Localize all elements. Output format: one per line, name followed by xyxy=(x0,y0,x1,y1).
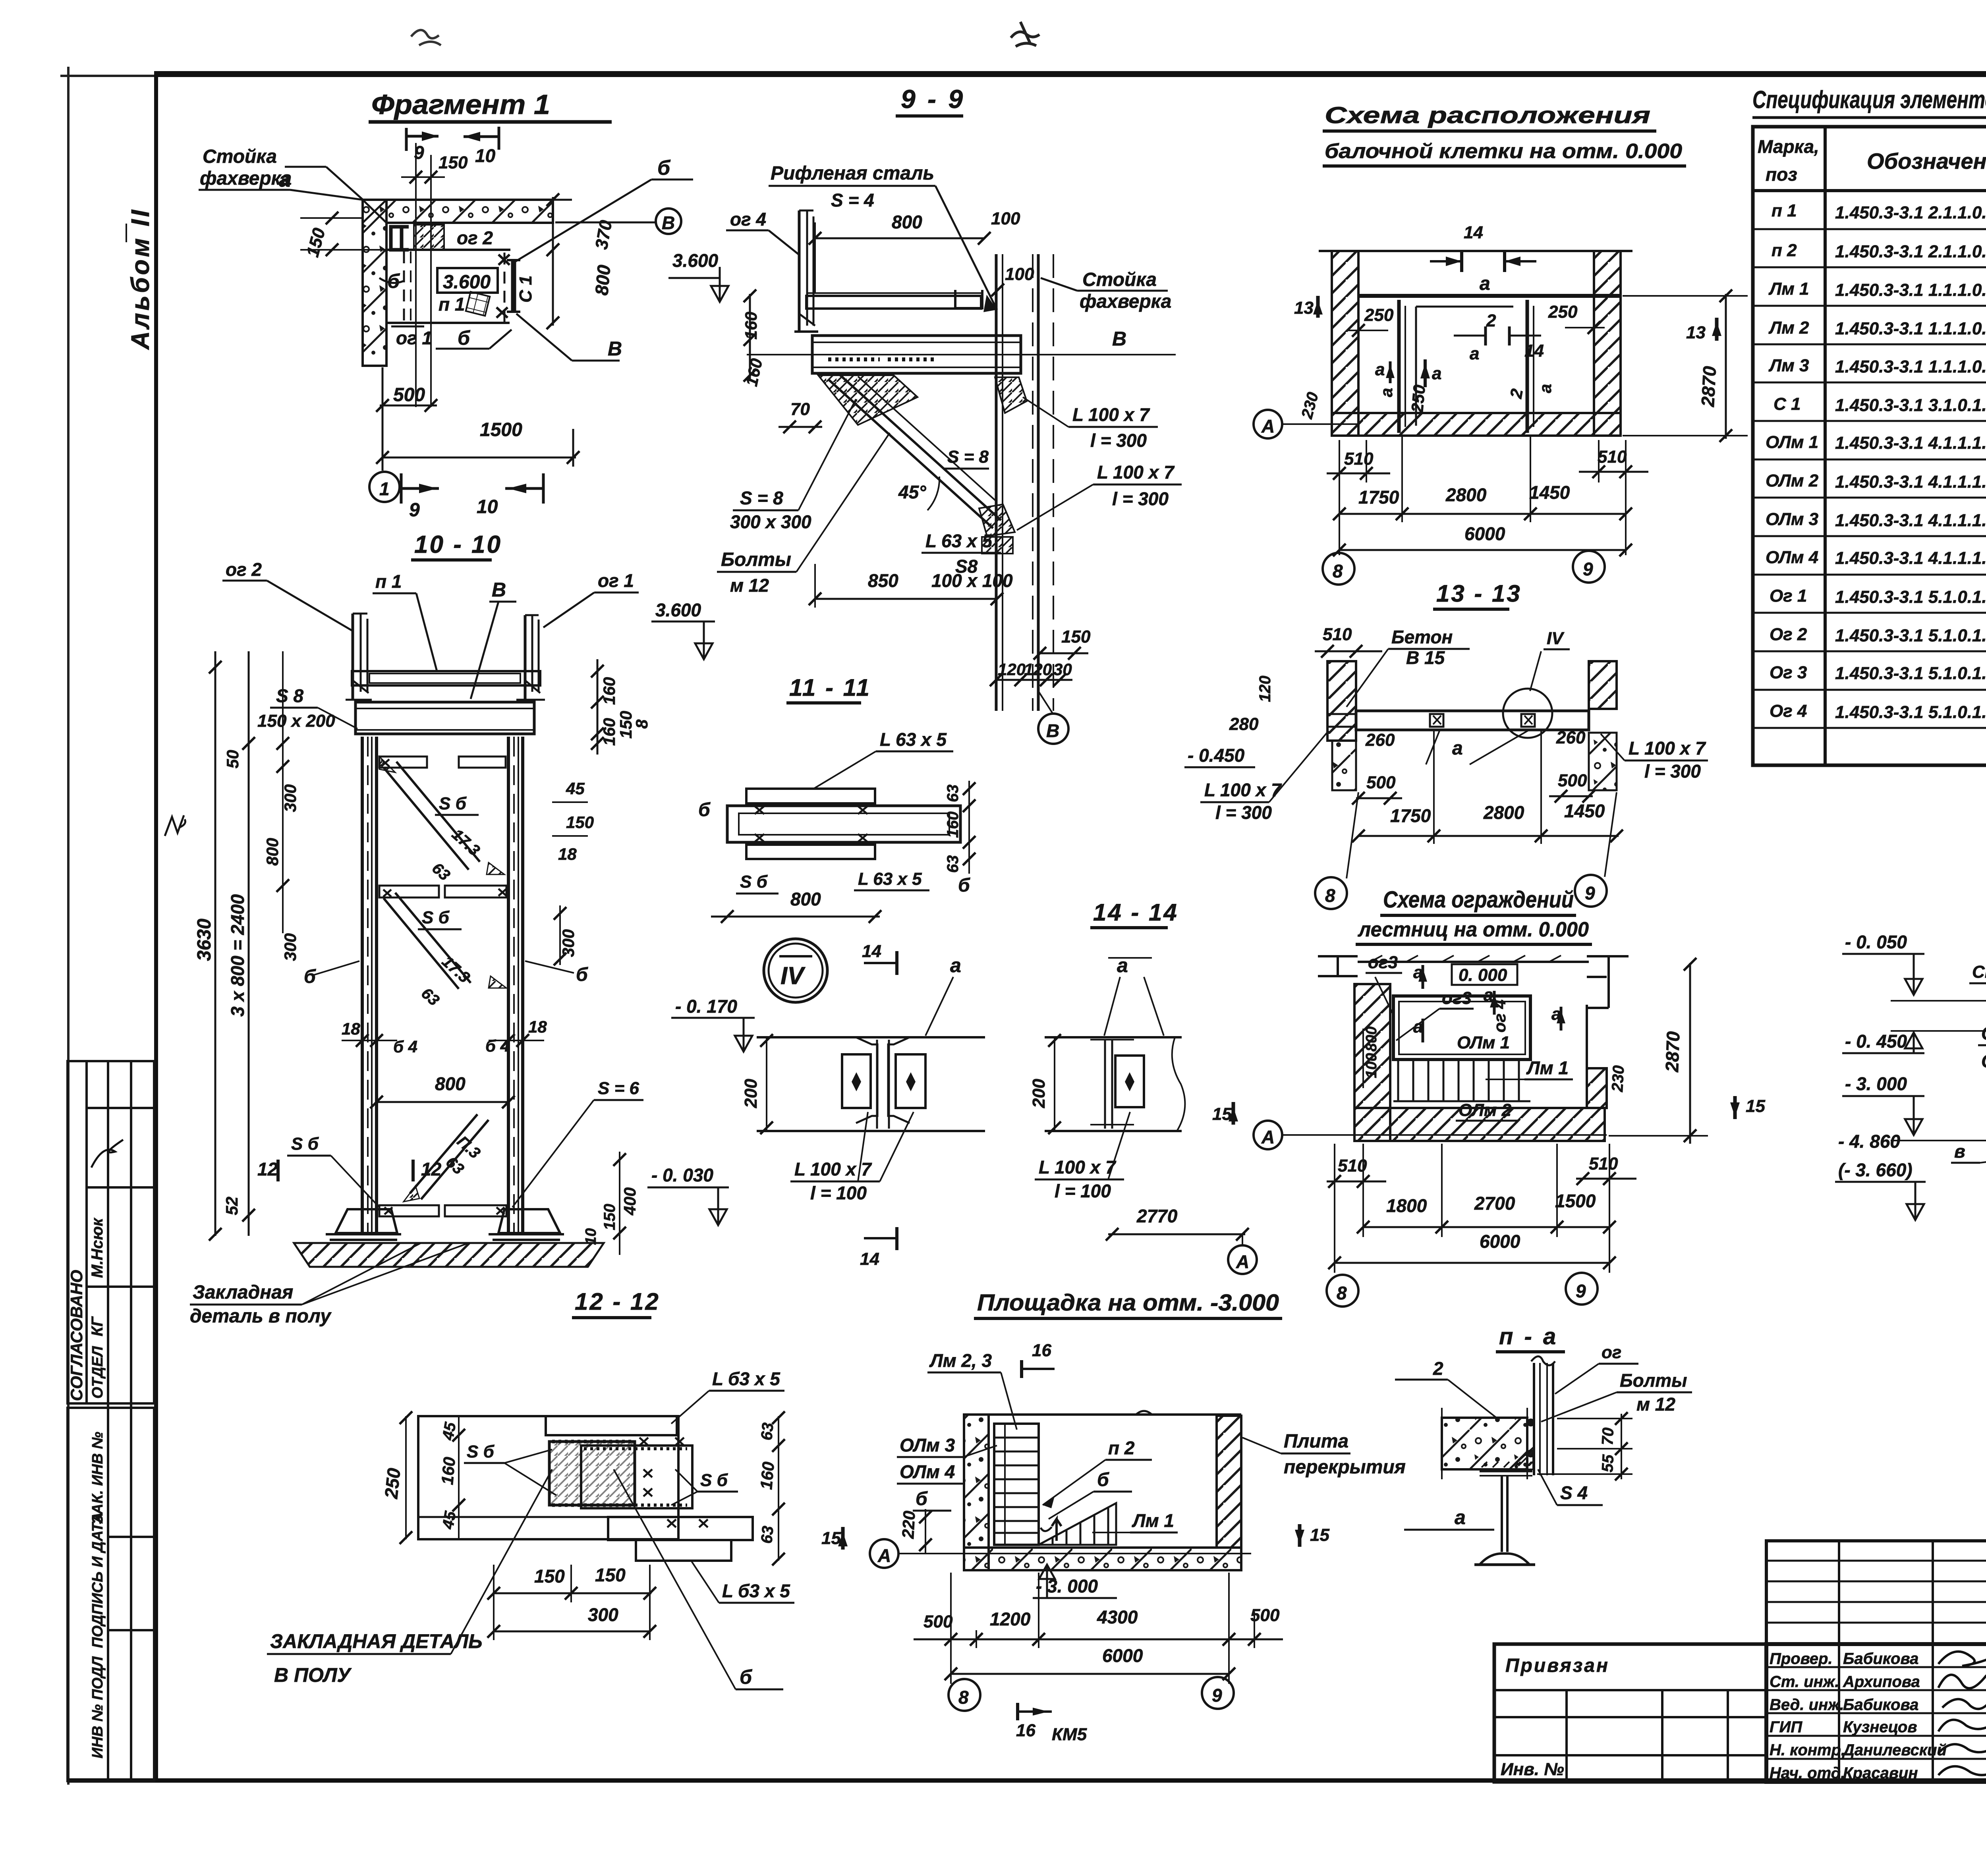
svg-text:м 12: м 12 xyxy=(730,575,769,596)
svg-text:150: 150 xyxy=(534,1566,565,1586)
svg-text:1500: 1500 xyxy=(480,419,522,440)
svg-text:Лм 1: Лм 1 xyxy=(1526,1058,1569,1078)
svg-text:6000: 6000 xyxy=(1102,1645,1143,1666)
stair up ladder xyxy=(994,1424,1039,1545)
svg-text:фахверка: фахверка xyxy=(1080,291,1171,312)
svg-text:3.600: 3.600 xyxy=(655,600,701,620)
svg-text:б: б xyxy=(740,1666,753,1688)
svg-text:Фрагмент 1: Фрагмент 1 xyxy=(371,89,550,120)
svg-text:3630: 3630 xyxy=(194,919,215,961)
svg-text:500: 500 xyxy=(393,384,425,405)
svg-text:М.Нсюк: М.Нсюк xyxy=(89,1218,106,1278)
svg-text:L б3 x 5: L б3 x 5 xyxy=(722,1581,790,1601)
svg-text:800: 800 xyxy=(591,264,614,296)
svg-text:200: 200 xyxy=(1029,1079,1049,1108)
svg-text:510: 510 xyxy=(1598,447,1627,467)
svg-text:А: А xyxy=(877,1545,891,1566)
upper small table xyxy=(1766,1541,1986,1644)
svg-text:250: 250 xyxy=(1364,305,1394,325)
svg-text:13: 13 xyxy=(1294,298,1314,318)
svg-text:а: а xyxy=(1455,1506,1466,1529)
ground hatch xyxy=(294,1243,604,1267)
svg-text:9: 9 xyxy=(409,500,420,521)
railing post xyxy=(1531,1357,1555,1476)
svg-text:1750: 1750 xyxy=(1358,487,1399,508)
svg-text:Ог 2: Ог 2 xyxy=(1770,625,1807,644)
svg-text:1800: 1800 xyxy=(1386,1195,1427,1216)
svg-text:200: 200 xyxy=(741,1079,761,1108)
svg-text:С 1: С 1 xyxy=(516,276,535,303)
svg-text:13 - 13: 13 - 13 xyxy=(1436,580,1522,607)
svg-text:1.450.3-3.1 1.1.1.0.0 - 07: 1.450.3-3.1 1.1.1.0.0 - 07 xyxy=(1835,319,1986,338)
main beam xyxy=(812,336,1021,373)
svg-text:1.450.3-3.1 5.1.0.1.0: 1.450.3-3.1 5.1.0.1.0 xyxy=(1835,626,1986,645)
svg-text:- 0. 170: - 0. 170 xyxy=(675,996,737,1017)
hatch patch under slab xyxy=(414,225,444,250)
left guard post xyxy=(346,614,372,700)
svg-text:160: 160 xyxy=(757,1461,778,1490)
svg-text:перекрытия: перекрытия xyxy=(1284,1457,1406,1478)
svg-text:ИНВ № ПОДЛ: ИНВ № ПОДЛ xyxy=(89,1656,106,1758)
signatures squiggles xyxy=(1938,1652,1986,1775)
dims right xyxy=(968,781,970,874)
spec table grid xyxy=(1753,127,1986,765)
svg-text:п 2: п 2 xyxy=(1772,241,1797,260)
svg-text:9: 9 xyxy=(1585,883,1595,903)
svg-text:б: б xyxy=(657,156,671,179)
svg-text:850: 850 xyxy=(868,570,898,591)
svg-text:13: 13 xyxy=(1686,323,1706,342)
svg-text:п 1: п 1 xyxy=(1772,201,1797,220)
outer walls xyxy=(1319,251,1632,436)
svg-text:l = 100: l = 100 xyxy=(810,1183,867,1203)
svg-text:б: б xyxy=(698,799,711,820)
svg-text:ОЛм 4: ОЛм 4 xyxy=(1766,548,1818,567)
svg-text:l = 100: l = 100 xyxy=(1055,1181,1111,1201)
svg-text:ог 1: ог 1 xyxy=(598,570,634,591)
axis A xyxy=(1283,1134,1607,1136)
svg-text:Привязан: Привязан xyxy=(1505,1655,1609,1676)
svg-text:8: 8 xyxy=(1337,1283,1347,1303)
svg-text:150: 150 xyxy=(1061,627,1091,647)
svg-text:1450: 1450 xyxy=(1564,801,1605,821)
left stamp column xyxy=(68,1061,154,1781)
svg-text:ОЛм 2: ОЛм 2 xyxy=(1459,1100,1512,1120)
svg-text:0. 000: 0. 000 xyxy=(1459,965,1507,985)
gusset hatches xyxy=(818,375,918,425)
svg-text:В: В xyxy=(608,338,622,360)
braces and connection plates xyxy=(379,757,506,1216)
svg-text:б: б xyxy=(958,875,970,896)
svg-text:300: 300 xyxy=(281,784,299,812)
svg-text:1450: 1450 xyxy=(1529,482,1570,503)
weld ticks on top flange xyxy=(1482,1462,1532,1467)
platform deck xyxy=(806,296,981,309)
svg-text:Стойка: Стойка xyxy=(1082,269,1157,290)
railing rectangle xyxy=(1393,996,1530,1060)
svg-text:400: 400 xyxy=(620,1187,639,1216)
right dim chain 370 800 xyxy=(552,197,554,326)
svg-text:500: 500 xyxy=(1558,771,1587,790)
svg-text:220: 220 xyxy=(898,1510,919,1539)
svg-text:12: 12 xyxy=(257,1159,278,1179)
inner frame xyxy=(1414,305,1513,306)
svg-text:ГИП: ГИП xyxy=(1770,1718,1802,1736)
right dim 2870 xyxy=(1725,294,1727,439)
svg-text:15: 15 xyxy=(821,1529,841,1548)
svg-text:2870: 2870 xyxy=(1661,1031,1684,1073)
svg-text:100: 100 xyxy=(1005,264,1034,284)
svg-text:S = 8: S = 8 xyxy=(740,488,783,508)
svg-text:деталь в полу: деталь в полу xyxy=(190,1306,332,1327)
frame: bottom border xyxy=(68,1778,1986,1783)
svg-text:9: 9 xyxy=(1576,1281,1586,1301)
svg-text:50: 50 xyxy=(223,750,242,768)
svg-text:а: а xyxy=(1470,344,1479,363)
svg-text:9: 9 xyxy=(1583,559,1593,579)
svg-text:L 100 x 7: L 100 x 7 xyxy=(1097,462,1175,483)
base bracket at column xyxy=(982,537,1013,554)
14 mark bottom xyxy=(864,1237,897,1239)
svg-text:Архипова: Архипова xyxy=(1843,1673,1920,1691)
svg-text:120: 120 xyxy=(1024,660,1052,679)
svg-text:L 100 x 7: L 100 x 7 xyxy=(1072,404,1150,425)
svg-text:160: 160 xyxy=(438,1456,459,1486)
svg-text:Обозначение: Обозначение xyxy=(1867,149,1986,174)
svg-text:14: 14 xyxy=(1524,341,1544,361)
main body xyxy=(418,1416,753,1561)
svg-text:ОЛм 1: ОЛм 1 xyxy=(1766,432,1818,452)
svg-text:L б3 x 5: L б3 x 5 xyxy=(712,1368,780,1389)
svg-text:Н. контр.: Н. контр. xyxy=(1770,1741,1845,1759)
main title block xyxy=(1766,1644,1986,1782)
svg-text:150: 150 xyxy=(601,1204,618,1230)
weld hatch marks xyxy=(552,1442,632,1505)
svg-text:9 - 9: 9 - 9 xyxy=(901,84,965,114)
svg-text:Закладная: Закладная xyxy=(193,1282,293,1303)
x marks xyxy=(496,255,510,318)
axis circle 1 xyxy=(369,472,400,502)
walls xyxy=(964,1415,989,1570)
svg-text:Бетон: Бетон xyxy=(1391,627,1453,647)
right dim chain xyxy=(597,659,599,755)
svg-text:8: 8 xyxy=(1325,885,1335,906)
svg-text:1.450.3-3.1 5.1.0.1.0 - 08: 1.450.3-3.1 5.1.0.1.0 - 08 xyxy=(1835,664,1986,683)
svg-text:11 - 11: 11 - 11 xyxy=(789,674,871,701)
svg-text:п - а: п - а xyxy=(1499,1324,1558,1349)
checker plate mark xyxy=(466,292,490,316)
svg-text:9: 9 xyxy=(1212,1685,1222,1706)
platform deck band xyxy=(352,671,540,685)
svg-text:а: а xyxy=(1536,384,1555,393)
svg-text:l = 300: l = 300 xyxy=(1112,488,1169,509)
svg-text:1.450.3-3.1 2.1.1.0.0 - 07: 1.450.3-3.1 2.1.1.0.0 - 07 xyxy=(1835,203,1986,222)
svg-text:1.450.3-3.1 4.1.1.1.0 - 09: 1.450.3-3.1 4.1.1.1.0 - 09 xyxy=(1835,472,1986,492)
svg-text:150 x 200: 150 x 200 xyxy=(257,711,335,731)
svg-text:1: 1 xyxy=(379,479,390,499)
svg-text:14: 14 xyxy=(1464,223,1483,242)
svg-text:L 100 x 7: L 100 x 7 xyxy=(1039,1157,1117,1177)
dims right xyxy=(1621,1414,1622,1479)
svg-text:4300: 4300 xyxy=(1097,1607,1138,1627)
svg-text:ог: ог xyxy=(1602,1343,1621,1362)
svg-text:Лм 2: Лм 2 xyxy=(1768,318,1809,338)
circled В axis xyxy=(656,208,681,234)
column right xyxy=(996,254,1053,711)
svg-text:ОЛм 1: ОЛм 1 xyxy=(1457,1033,1510,1052)
svg-text:Спецификация элементов для: Спецификация элементов для площадок на о… xyxy=(1752,86,1986,114)
svg-text:45: 45 xyxy=(439,1509,459,1531)
svg-text:120: 120 xyxy=(998,660,1026,679)
svg-text:2770: 2770 xyxy=(1136,1206,1178,1226)
svg-text:а: а xyxy=(950,954,961,977)
bracket detail xyxy=(391,227,409,250)
svg-text:ОЛм 3: ОЛм 3 xyxy=(900,1435,955,1455)
14 mark top xyxy=(864,962,897,964)
axis circles xyxy=(1327,1275,1358,1307)
twin I beams xyxy=(856,1037,910,1129)
svg-text:45: 45 xyxy=(439,1421,459,1442)
dashed post lines xyxy=(403,251,405,322)
svg-text:250: 250 xyxy=(1548,302,1578,322)
lower flight xyxy=(1039,1503,1116,1545)
slab xyxy=(1442,1418,1527,1469)
left group xyxy=(757,1036,985,1038)
data rows xyxy=(1766,199,1986,722)
svg-text:45: 45 xyxy=(566,779,585,798)
svg-text:510: 510 xyxy=(1323,625,1352,644)
0.000 box xyxy=(1452,964,1517,985)
svg-text:800: 800 xyxy=(1363,1027,1380,1052)
svg-text:12: 12 xyxy=(421,1159,442,1179)
right wall piece xyxy=(1587,1005,1607,1108)
svg-text:Бабикова: Бабикова xyxy=(1843,1650,1918,1668)
svg-text:S б: S б xyxy=(740,872,768,892)
svg-text:1.450.3-3.1 5.1.0.1.0 - 03: 1.450.3-3.1 5.1.0.1.0 - 03 xyxy=(1835,587,1986,607)
svg-text:- 0.450: - 0.450 xyxy=(1188,745,1245,766)
svg-text:150: 150 xyxy=(566,813,594,832)
svg-text:С 1: С 1 xyxy=(1773,394,1801,414)
direction arrow xyxy=(1052,1519,1061,1541)
svg-text:б 4: б 4 xyxy=(485,1036,510,1055)
svg-text:510: 510 xyxy=(1589,1154,1618,1173)
svg-text:фахверка: фахверка xyxy=(200,168,292,189)
svg-text:а: а xyxy=(1375,360,1385,379)
svg-text:12 - 12: 12 - 12 xyxy=(575,1288,660,1315)
svg-text:Болты: Болты xyxy=(1620,1370,1687,1391)
svg-text:14: 14 xyxy=(862,942,881,961)
svg-text:Нач. отд.: Нач. отд. xyxy=(1770,1764,1845,1782)
svg-text:S б: S б xyxy=(291,1134,319,1154)
svg-text:510: 510 xyxy=(1344,449,1374,469)
svg-text:S б: S б xyxy=(422,908,450,927)
svg-text:70: 70 xyxy=(1599,1427,1617,1446)
walls xyxy=(1327,661,1356,741)
bolts xyxy=(1527,1419,1535,1426)
svg-text:А: А xyxy=(1261,416,1275,436)
svg-text:3.600: 3.600 xyxy=(672,250,719,271)
svg-text:Марка,: Марка, xyxy=(1758,136,1819,157)
svg-text:10: 10 xyxy=(583,1228,599,1245)
right deck angle xyxy=(955,290,982,308)
svg-text:В: В xyxy=(492,579,506,601)
svg-text:L 100 x 7: L 100 x 7 xyxy=(1629,738,1706,759)
svg-text:S = 4: S = 4 xyxy=(831,190,874,210)
svg-text:б: б xyxy=(1097,1469,1109,1490)
svg-text:S б: S б xyxy=(700,1471,728,1490)
svg-text:1.450.3-3.1 2.1.1.0.0 - 04: 1.450.3-3.1 2.1.1.0.0 - 04 xyxy=(1835,242,1986,261)
svg-text:О Л м 2: О Л м 2 xyxy=(1981,1051,1986,1071)
svg-text:1.450.3-3.1 4.1.1.1.0 - 03: 1.450.3-3.1 4.1.1.1.0 - 03 xyxy=(1835,433,1986,453)
svg-text:150: 150 xyxy=(595,1565,626,1585)
svg-text:в: в xyxy=(1954,1141,1965,1162)
frame: left border xyxy=(154,71,158,1782)
svg-text:52: 52 xyxy=(222,1197,241,1215)
angle bracket hatched xyxy=(1509,1448,1533,1469)
svg-text:Ст. инж.: Ст. инж. xyxy=(1770,1673,1839,1691)
svg-text:1.450.3-3.1 1.1.1.0.0: 1.450.3-3.1 1.1.1.0.0 xyxy=(1835,357,1986,376)
svg-text:п 1: п 1 xyxy=(375,571,402,592)
bottom wall xyxy=(1354,1108,1605,1141)
svg-text:18: 18 xyxy=(558,845,577,863)
svg-text:А: А xyxy=(1236,1251,1249,1272)
x weld marks xyxy=(381,759,506,1214)
svg-text:ПОДПИСЬ И ДАТА: ПОДПИСЬ И ДАТА xyxy=(89,1512,106,1648)
svg-text:S 8: S 8 xyxy=(276,685,303,706)
svg-text:14 - 14: 14 - 14 xyxy=(1093,899,1178,926)
svg-text:В: В xyxy=(1046,720,1059,741)
left axis line A xyxy=(1283,423,1358,425)
200 dim xyxy=(766,1037,767,1131)
svg-text:l = 300: l = 300 xyxy=(1215,802,1272,823)
svg-text:СОГЛАСОВАНО: СОГЛАСОВАНО xyxy=(67,1270,86,1401)
svg-text:500: 500 xyxy=(923,1612,953,1631)
svg-text:Лм 1: Лм 1 xyxy=(1768,279,1809,299)
svg-text:63: 63 xyxy=(758,1422,777,1441)
svg-text:1500: 1500 xyxy=(1555,1191,1596,1211)
svg-text:16: 16 xyxy=(1016,1721,1036,1740)
svg-text:а: а xyxy=(1452,738,1463,759)
svg-text:160: 160 xyxy=(944,811,962,838)
svg-text:- 0. 050: - 0. 050 xyxy=(1845,932,1907,952)
svg-text:2800: 2800 xyxy=(1445,484,1487,505)
svg-text:3.600: 3.600 xyxy=(443,272,491,293)
svg-text:70: 70 xyxy=(790,400,810,419)
svg-text:а: а xyxy=(1432,364,1441,383)
svg-text:п 1: п 1 xyxy=(439,294,465,315)
left dims xyxy=(405,1416,407,1539)
svg-text:2870: 2870 xyxy=(1697,365,1720,407)
svg-text:Площадка на отм. -3.000: Площадка на отм. -3.000 xyxy=(977,1290,1279,1316)
secondary beams vertical xyxy=(1397,300,1401,433)
node IV circle xyxy=(764,939,827,1002)
right guard post xyxy=(516,615,545,700)
svg-text:Рифленая сталь: Рифленая сталь xyxy=(771,163,934,184)
svg-text:поз: поз xyxy=(1766,164,1797,185)
stair treads xyxy=(1393,1060,1530,1101)
svg-text:1.450.3-3.1 1.1.1.0.0 - 13: 1.450.3-3.1 1.1.1.0.0 - 13 xyxy=(1835,280,1986,300)
label ог1 xyxy=(391,326,424,328)
svg-text:ЗАКЛАДНАЯ ДЕТАЛЬ: ЗАКЛАДНАЯ ДЕТАЛЬ xyxy=(270,1630,483,1652)
signature rows xyxy=(1770,1650,1947,1782)
svg-text:260: 260 xyxy=(1365,730,1395,750)
svg-text:250: 250 xyxy=(1408,384,1429,414)
elevation box 3.600 xyxy=(437,268,498,293)
svg-text:260: 260 xyxy=(1556,728,1586,747)
svg-text:300 x 300: 300 x 300 xyxy=(730,511,811,532)
svg-text:1.450.3-3.1 5.1.0.1. 0 - 05: 1.450.3-3.1 5.1.0.1. 0 - 05 xyxy=(1835,703,1986,722)
svg-text:160: 160 xyxy=(600,718,618,746)
svg-text:1.450.3-3.1 4.1.1.1.0 - 01: 1.450.3-3.1 4.1.1.1.0 - 01 xyxy=(1835,511,1986,530)
400 150 right dims xyxy=(619,1152,620,1255)
svg-text:120: 120 xyxy=(1256,676,1274,702)
break squiggle right xyxy=(1172,1037,1185,1131)
diagonal brace xyxy=(828,373,1001,528)
svg-text:ог 1: ог 1 xyxy=(396,328,432,348)
svg-text:а: а xyxy=(1480,273,1490,294)
axis circles 8 9 xyxy=(1315,877,1347,909)
svg-text:1200: 1200 xyxy=(990,1609,1031,1629)
svg-text:IV: IV xyxy=(780,962,806,990)
svg-text:150: 150 xyxy=(439,153,468,172)
svg-text:- 0. 450: - 0. 450 xyxy=(1845,1031,1907,1052)
svg-text:ог 2: ог 2 xyxy=(226,559,262,580)
svg-text:10: 10 xyxy=(475,145,496,166)
frame: top border xyxy=(156,71,1986,77)
svg-text:ОЛм 2: ОЛм 2 xyxy=(1766,471,1819,490)
beam xyxy=(1356,711,1589,730)
svg-text:15: 15 xyxy=(1746,1096,1765,1116)
corner cross on wall top xyxy=(363,200,386,223)
top beam with I ends xyxy=(1318,956,1358,976)
svg-text:230: 230 xyxy=(1609,1065,1627,1093)
left wall xyxy=(1354,984,1390,1141)
svg-text:100 x 100: 100 x 100 xyxy=(931,570,1013,591)
bottom marks 9 10 xyxy=(401,473,543,504)
svg-text:300: 300 xyxy=(281,933,299,961)
svg-text:1750: 1750 xyxy=(1390,805,1431,826)
connection stubs xyxy=(1430,714,1443,727)
svg-text:L 63 x 5: L 63 x 5 xyxy=(858,869,922,889)
frame: outer left trim line xyxy=(67,67,70,1785)
svg-text:S б: S б xyxy=(439,794,467,813)
svg-text:10: 10 xyxy=(477,496,498,517)
svg-text:б: б xyxy=(916,1488,928,1509)
svg-text:- 3. 000: - 3. 000 xyxy=(1845,1073,1907,1094)
svg-text:800: 800 xyxy=(263,838,282,866)
svg-text:800: 800 xyxy=(892,212,922,232)
stremyanka C1 xyxy=(511,260,516,312)
svg-text:l = 300: l = 300 xyxy=(1644,761,1701,782)
svg-text:8: 8 xyxy=(632,719,651,729)
svg-text:Лм 2, 3: Лм 2, 3 xyxy=(929,1350,992,1371)
svg-text:ог 4: ог 4 xyxy=(730,209,766,230)
svg-text:В ПОЛУ: В ПОЛУ xyxy=(274,1664,352,1686)
base plates xyxy=(326,1209,564,1240)
concrete slab top xyxy=(386,200,553,223)
svg-text:п 2: п 2 xyxy=(1108,1438,1135,1458)
axis circles xyxy=(949,1679,980,1711)
svg-text:14: 14 xyxy=(860,1249,879,1269)
svg-text:100: 100 xyxy=(1363,1053,1380,1078)
svg-text:6000: 6000 xyxy=(1480,1231,1520,1252)
svg-text:ЗАК. ИНВ №: ЗАК. ИНВ № xyxy=(89,1432,106,1524)
svg-text:В 15: В 15 xyxy=(1406,647,1445,668)
right group xyxy=(1045,1036,1182,1038)
svg-text:18: 18 xyxy=(528,1017,547,1036)
svg-text:8: 8 xyxy=(958,1687,969,1708)
svg-text:СЕЧ. а - а: СЕЧ. а - а xyxy=(1972,962,1986,982)
